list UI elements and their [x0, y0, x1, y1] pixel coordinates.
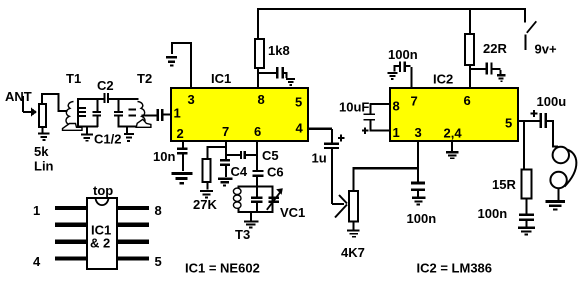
wire IC1 pin 4 output: [307, 128, 333, 143]
label C4: [231, 164, 248, 179]
label 1u: [312, 151, 327, 166]
DIP pin 5 label: [155, 254, 162, 269]
amplifier IC2 LM386 box: [390, 88, 518, 141]
svg-text:1: 1: [174, 106, 181, 121]
label 5k: [34, 144, 49, 159]
DIP pin 4 label: [33, 254, 41, 269]
wire IC1 pin 3 to ground: [171, 42, 192, 88]
svg-text:7: 7: [411, 94, 418, 109]
svg-text:3: 3: [415, 125, 422, 140]
wiper arrow of 4K7: [335, 195, 347, 218]
label T3: [235, 227, 250, 242]
svg-text:2,4: 2,4: [444, 126, 463, 141]
svg-text:100u: 100u: [537, 94, 567, 109]
label 22R: [483, 41, 507, 56]
DIP label IC1 & 2: [90, 223, 111, 251]
capacitor 100n at IC2 pin 7: [394, 62, 411, 72]
pin 8 label: [258, 92, 265, 107]
svg-text:ANT: ANT: [5, 89, 32, 104]
pin 7 label: [222, 124, 229, 139]
pin 5 label: [505, 116, 512, 131]
op-amp IC1 NE602 box: [171, 88, 308, 141]
ground at pin 6 cap: [497, 74, 506, 82]
pin 6 label: [254, 124, 261, 139]
pin 1 label: [174, 106, 181, 121]
label C6: [267, 165, 284, 180]
caption IC2 = LM386: [417, 261, 493, 276]
transformer T2 tank top wire: [118, 98, 139, 100]
svg-text:6: 6: [464, 93, 471, 108]
label 9v+: [535, 42, 557, 57]
svg-text:C5: C5: [262, 148, 279, 163]
wire 1u to wiper: [331, 149, 344, 205]
svg-text:100n: 100n: [388, 47, 418, 62]
label C2: [97, 78, 114, 93]
ground at pin8 decoupling cap: [286, 78, 295, 86]
potentiometer 5k body: [39, 104, 46, 127]
pin 3 label: [188, 92, 195, 107]
wire pot bottom: [42, 127, 44, 133]
svg-text:10uF: 10uF: [339, 100, 369, 115]
ground at IC1 pin 3: [166, 56, 177, 67]
label IC2: [433, 72, 453, 87]
svg-text:3: 3: [188, 92, 195, 107]
ground at pins 2,4: [446, 151, 459, 159]
transformer T1 bottom wire: [77, 126, 98, 128]
ground at pin 7 cap: [387, 72, 397, 80]
capacitor 100n zobel: [519, 214, 534, 227]
svg-text:8: 8: [393, 99, 400, 114]
label C5: [262, 148, 279, 163]
DIP package body IC1 and IC2: [87, 198, 117, 269]
svg-text:1k8: 1k8: [268, 43, 290, 58]
svg-text:1: 1: [393, 125, 400, 140]
label 100n: [478, 206, 508, 221]
resistor 1k8: [255, 39, 290, 68]
pin 6 label: [464, 93, 471, 108]
DIP pins right: [118, 206, 150, 261]
label 100n: [388, 47, 418, 62]
label top: [93, 183, 113, 198]
pin 5 label: [295, 95, 302, 110]
caption IC1 = NE602: [185, 261, 260, 276]
label 100n: [407, 211, 437, 226]
wire rail to 22R: [469, 10, 471, 34]
wire IC2 pin 5 output: [518, 120, 540, 122]
DIP pin 1 label: [33, 203, 40, 218]
wire IC2 pin 7 up: [411, 67, 413, 88]
capacitor decoupling at IC2 pin 6: [471, 63, 502, 75]
pin 8 label: [393, 99, 400, 114]
wire ANT arrow: [22, 96, 37, 117]
svg-text:4: 4: [296, 121, 304, 136]
svg-text:15R: 15R: [492, 177, 516, 192]
transformer T1 tank top wire: [77, 98, 104, 100]
capacitor C2: [104, 93, 119, 103]
svg-text:1: 1: [33, 203, 40, 218]
ground at T3: [244, 220, 258, 228]
pin 7 label: [411, 94, 418, 109]
wire 1k8 to IC1 pin 8: [257, 68, 259, 88]
label IC1: [211, 71, 231, 86]
ground at T1: [81, 133, 93, 141]
wire T2 tap to ground: [126, 128, 128, 134]
svg-text:4: 4: [33, 254, 41, 269]
svg-text:100n: 100n: [478, 206, 508, 221]
pin 4 label: [296, 121, 304, 136]
wire T1 tap to ground: [86, 127, 88, 134]
capacitor C5: [227, 151, 258, 159]
pin 1 label: [393, 125, 400, 140]
svg-text:IC1 = NE602: IC1 = NE602: [185, 261, 260, 276]
capacitor coupling into IC1 pin 1: [157, 109, 172, 121]
DIP pins left: [55, 206, 87, 261]
svg-text:5: 5: [295, 95, 302, 110]
label Lin: [34, 159, 54, 174]
label T2: [137, 71, 152, 86]
svg-text:C1/2: C1/2: [94, 132, 121, 147]
label 10n: [153, 149, 175, 164]
wire 100u to phones: [552, 122, 558, 148]
transformer T2 bottom wire: [118, 126, 152, 128]
svg-text:9v+: 9v+: [535, 42, 557, 57]
svg-text:22R: 22R: [483, 41, 507, 56]
potentiometer 4K7 body: [349, 191, 358, 222]
capacitor C4: [220, 159, 230, 177]
capacitor 100u: [531, 110, 554, 128]
transformer T1 left side and coil: [77, 99, 86, 127]
svg-text:IC1: IC1: [211, 71, 231, 86]
label ANT: [5, 89, 32, 104]
svg-text:27K: 27K: [193, 197, 217, 212]
ground at 5k pot: [38, 133, 50, 142]
capacitor C6: [253, 170, 264, 187]
variable capacitor VC1: [267, 188, 283, 210]
svg-text:C6: C6: [267, 165, 284, 180]
ground at 27K: [200, 190, 213, 199]
svg-text:2: 2: [177, 126, 184, 141]
label 100u: [537, 94, 567, 109]
svg-text:8: 8: [258, 92, 265, 107]
wire 4K7 bottom: [353, 222, 355, 230]
resistor 27K: [203, 159, 211, 190]
ground at T2: [124, 133, 134, 142]
wire pot top to T1: [41, 93, 68, 112]
pin 3 label: [415, 125, 422, 140]
label VC1: [280, 205, 305, 220]
svg-text:1u: 1u: [312, 151, 327, 166]
svg-text:C2: C2: [97, 78, 114, 93]
label 15R: [492, 177, 516, 192]
transformer T3 tank: [239, 187, 273, 213]
wire pin 7 jog to 27K: [207, 146, 227, 159]
svg-text:100n: 100n: [407, 211, 437, 226]
svg-text:5: 5: [155, 254, 162, 269]
wire pin 5 branch to 15R: [523, 122, 525, 169]
transformer T1 base: [63, 124, 83, 131]
svg-text:6: 6: [254, 124, 261, 139]
ground at phones: [546, 200, 566, 210]
DIP pin 8 label: [155, 203, 162, 218]
transformer T2 base: [136, 119, 151, 127]
svg-text:VC1: VC1: [280, 205, 305, 220]
wire 15R to 100n: [526, 199, 528, 214]
wire IC2 pin 3 down: [417, 141, 419, 182]
svg-text:C4: C4: [231, 164, 248, 179]
svg-text:T1: T1: [66, 71, 81, 86]
transformer T1 primary winding: [66, 102, 74, 125]
capacitor 10n: [177, 148, 188, 171]
ground at C4: [218, 177, 233, 186]
transformer T1 internal capacitor: [93, 100, 102, 127]
svg-text:Lin: Lin: [34, 159, 54, 174]
label 4K7: [341, 245, 365, 260]
svg-text:IC2: IC2: [433, 72, 453, 87]
svg-text:5k: 5k: [34, 144, 49, 159]
wire 4K7 top to IC2 pin 3: [353, 167, 420, 192]
wire T3 tap to ground: [250, 213, 252, 221]
svg-text:& 2: & 2: [90, 236, 110, 251]
svg-text:5: 5: [505, 116, 512, 131]
transformer T3 internal capacitor: [251, 187, 263, 213]
capacitor supply decoupling at IC1 pin 8: [259, 67, 288, 79]
capacitor 1u: [324, 135, 345, 150]
svg-text:T3: T3: [235, 227, 250, 242]
transformer T2 secondary winding: [138, 102, 146, 125]
resistor 22R: [465, 34, 474, 65]
wire V+ rail: [257, 8, 526, 10]
transformer T2 coil bars: [129, 109, 137, 117]
ground at zobel cap: [518, 227, 535, 236]
capacitor 10uF between pins 8 and 1: [362, 103, 389, 134]
wire IC1 pin 7 down: [225, 141, 227, 160]
wire IC2 pins 2,4 down: [451, 141, 453, 151]
DIP notch: [96, 198, 109, 205]
switch S1 power: [524, 8, 536, 50]
wire 22R to IC2 pin 6: [469, 65, 471, 88]
label 10uF: [339, 100, 369, 115]
wire IC1 pin 2 down: [182, 141, 184, 148]
pins 2,4 label: [444, 126, 463, 141]
svg-text:8: 8: [155, 203, 162, 218]
transformer T2 internal capacitor: [114, 100, 123, 127]
wire rail drop to 1k8: [257, 10, 259, 38]
label 27K: [193, 197, 217, 212]
ground at pin 3 cap: [412, 197, 425, 206]
transformer T3 coil loops: [233, 188, 241, 208]
svg-text:T2: T2: [137, 71, 152, 86]
pin 2 label: [177, 126, 184, 141]
svg-text:4K7: 4K7: [341, 245, 365, 260]
headphones: [550, 147, 576, 188]
capacitor 100n at IC2 pin 3: [411, 182, 425, 197]
label T1: [66, 71, 81, 86]
resistor 15R: [522, 170, 532, 199]
wire phones to ground: [558, 188, 560, 200]
wire T2 output: [142, 115, 157, 117]
wire IC1 pin 6 down: [256, 141, 258, 170]
svg-text:10n: 10n: [153, 149, 175, 164]
ground at 4K7: [347, 229, 360, 237]
ground at 10n: [171, 172, 192, 184]
label C1/2: [94, 132, 121, 147]
svg-text:top: top: [93, 183, 113, 198]
svg-text:IC2 = LM386: IC2 = LM386: [417, 261, 493, 276]
svg-text:7: 7: [222, 124, 229, 139]
